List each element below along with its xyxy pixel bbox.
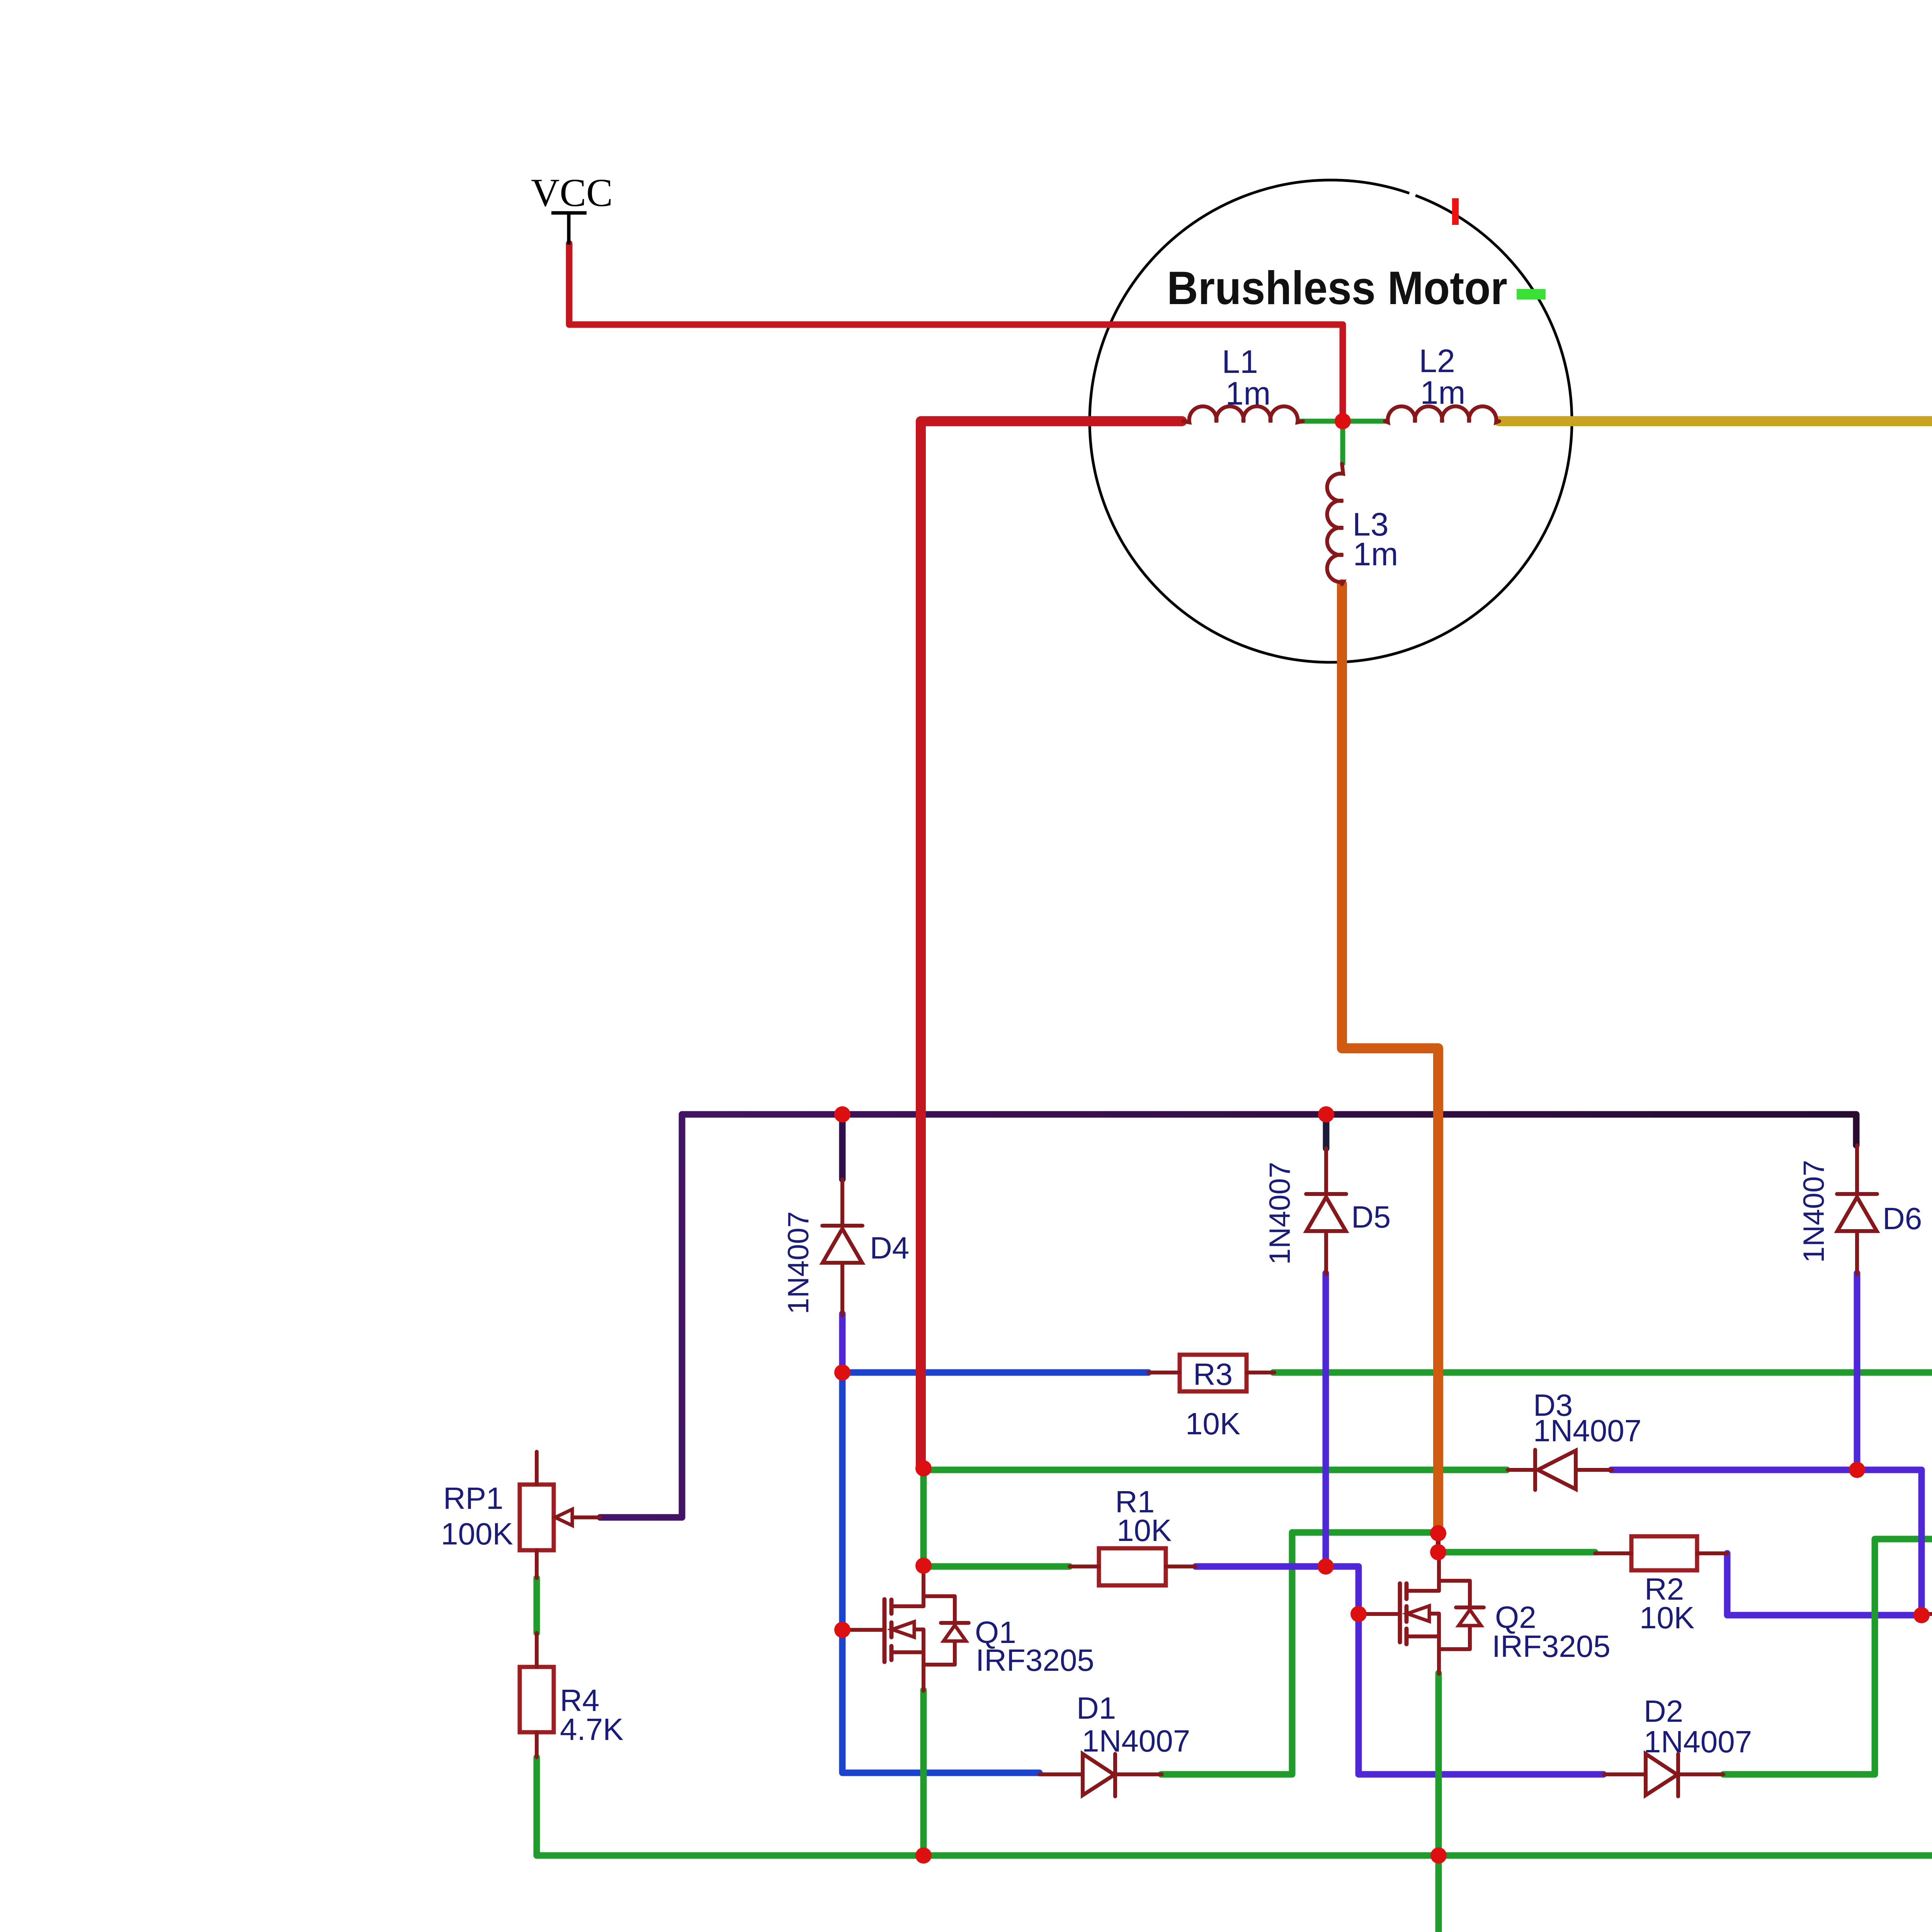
svg-text:IRF3205: IRF3205 xyxy=(1492,1629,1611,1663)
wire: green D1 cathode up to orange node xyxy=(1161,1532,1438,1774)
wire: motor junction greens xyxy=(1300,421,1386,464)
node: R1 right junction xyxy=(1318,1558,1334,1575)
wire: navy stub D4 top xyxy=(839,1114,846,1179)
wire: green RP1 to R4 link xyxy=(534,1578,540,1633)
wire: violet R2 right to Q3 gate junction xyxy=(1727,1553,1922,1615)
wire: green GND stem xyxy=(1435,1855,1442,1932)
node: Q2 gate junction xyxy=(1350,1606,1367,1622)
inductor L3 xyxy=(1327,464,1343,584)
svg-text:D5: D5 xyxy=(1351,1200,1391,1234)
wire: navy stub D5 top xyxy=(1323,1117,1330,1148)
svg-text:100K: 100K xyxy=(441,1517,513,1551)
motor body circle xyxy=(1090,180,1572,662)
wire: thick yellow phase B xyxy=(1499,421,1932,1372)
transistor Q1 IRF3205 xyxy=(842,1566,969,1691)
resistor R1 box xyxy=(1099,1548,1166,1585)
resistor R2 box xyxy=(1631,1536,1697,1570)
svg-text:1N4007: 1N4007 xyxy=(1533,1413,1641,1448)
node: Q2 drain junction xyxy=(1430,1544,1446,1560)
circle gap patch xyxy=(1407,188,1417,202)
svg-text:D1: D1 xyxy=(1077,1691,1116,1725)
wire: thick orange phase C xyxy=(1342,584,1438,1533)
VCC power symbol xyxy=(551,211,587,215)
svg-text:1N4007: 1N4007 xyxy=(782,1211,815,1314)
wire: thick red phase A xyxy=(921,421,1182,1468)
svg-text:10K: 10K xyxy=(1639,1600,1694,1635)
wire: violet R1 right to D5 column xyxy=(1196,1563,1326,1570)
transistor Q3 IRF3205 xyxy=(1922,1552,1932,1674)
node: Q3 gate junction xyxy=(1913,1607,1930,1623)
node: bus-D4 junction xyxy=(834,1106,850,1122)
diode D4 xyxy=(822,1179,862,1315)
inductor L2 xyxy=(1385,406,1499,422)
svg-text:1m: 1m xyxy=(1226,375,1271,412)
svg-text:IRF3205: IRF3205 xyxy=(976,1643,1094,1677)
svg-text:L2: L2 xyxy=(1419,343,1455,379)
svg-text:1m: 1m xyxy=(1353,536,1398,572)
node: Q1 drain junction xyxy=(915,1558,932,1574)
node: bus Q1 source xyxy=(915,1847,932,1864)
wire: violet D6 bottom to D3 row xyxy=(1854,1273,1861,1470)
transistor Q2 IRF3205 xyxy=(1359,1552,1484,1674)
wire: bottom ground bus green xyxy=(537,1673,1932,1855)
wire: blue Q1 gate column down to D1 xyxy=(842,1372,1039,1773)
wire: violet D3 row to Q3 gate xyxy=(1611,1470,1922,1615)
node: red wire end junction xyxy=(915,1460,932,1476)
node: bus-D5 junction xyxy=(1318,1106,1334,1122)
svg-text:D4: D4 xyxy=(870,1231,909,1265)
svg-text:L1: L1 xyxy=(1222,344,1258,380)
wire: green link red-end to Q1 drain xyxy=(920,1468,927,1566)
potentiometer RP1 xyxy=(520,1485,554,1550)
node: bus GND junction xyxy=(1430,1847,1447,1864)
diode D6 xyxy=(1837,1145,1877,1274)
node: motor star junction xyxy=(1335,413,1351,429)
wire: stub between phase C junctions xyxy=(1436,1532,1440,1553)
resistor R4 box xyxy=(520,1667,554,1732)
wire: D3 row green (thick red end to D3 cathode) xyxy=(923,1467,1507,1473)
motor terminal tick red xyxy=(1452,198,1459,225)
wire: violet over green crossing xyxy=(1918,1519,1925,1561)
wire: green Q2 drain to R2 left xyxy=(1438,1549,1595,1556)
wire: R1 row green (Q1 drain to R1 left) xyxy=(923,1563,1070,1570)
svg-text:Brushless Motor: Brushless Motor xyxy=(1167,262,1507,314)
wire: green D2 cathode up to Q3 drain node xyxy=(1723,1539,1932,1774)
wire: dark purple bus RP1 wiper to D6 top xyxy=(600,1114,1856,1517)
svg-text:1m: 1m xyxy=(1420,374,1466,411)
wire: blue R3 left row xyxy=(842,1369,1148,1376)
diode D1 xyxy=(1039,1754,1162,1796)
resistor R3 box xyxy=(1180,1355,1247,1391)
motor terminal tick green xyxy=(1517,289,1546,299)
svg-text:D6: D6 xyxy=(1883,1201,1922,1236)
node: Q1 gate junction xyxy=(834,1622,850,1638)
svg-text:VCC: VCC xyxy=(531,171,613,215)
svg-text:RP1: RP1 xyxy=(443,1481,503,1515)
svg-text:10K: 10K xyxy=(1117,1513,1172,1548)
wire: R3 row green (R3 right to yellow junction) xyxy=(1273,1369,1932,1376)
diode D2 xyxy=(1604,1754,1723,1796)
diode D5 xyxy=(1306,1148,1346,1274)
svg-text:1N4007: 1N4007 xyxy=(1264,1162,1296,1265)
node: D3-D6 junction xyxy=(1849,1462,1865,1478)
svg-text:10K: 10K xyxy=(1185,1406,1240,1441)
svg-text:R3: R3 xyxy=(1193,1357,1233,1391)
wire: violet D5 bottom to R1 right junction xyxy=(1323,1273,1329,1566)
RP1 wiper arrow xyxy=(555,1509,572,1526)
inductor L1 xyxy=(1183,406,1303,422)
svg-text:1N4007: 1N4007 xyxy=(1082,1724,1190,1758)
wire: VCC red wire xyxy=(569,243,1343,421)
diode D3 xyxy=(1508,1450,1612,1490)
wire: violet R1 junction to Q2 gate and down to D2 row xyxy=(1326,1566,1604,1774)
svg-text:1N4007: 1N4007 xyxy=(1798,1160,1830,1263)
wire: green Q2 source column xyxy=(1435,1673,1442,1855)
svg-text:4.7K: 4.7K xyxy=(560,1712,624,1747)
wire: green Q1 source column xyxy=(920,1690,927,1855)
wire: violet D4 bottom segment xyxy=(839,1314,846,1372)
svg-text:1N4007: 1N4007 xyxy=(1644,1725,1752,1759)
node: R3 left junction xyxy=(834,1364,850,1381)
node: orange end junction xyxy=(1430,1525,1446,1541)
svg-text:D2: D2 xyxy=(1644,1694,1683,1728)
